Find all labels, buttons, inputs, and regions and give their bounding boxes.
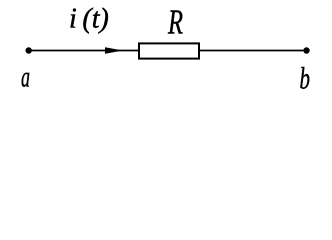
svg-text:R: R: [167, 2, 183, 41]
node b: [303, 47, 309, 53]
svg-text:b: b: [300, 61, 311, 96]
current arrow: [105, 47, 123, 54]
resistor R: [139, 43, 199, 58]
node a: [26, 47, 32, 53]
wire: [199, 50, 307, 52]
svg-text:a: a: [21, 61, 30, 94]
wire: [29, 50, 139, 52]
svg-text:i (t): i (t): [69, 4, 109, 35]
